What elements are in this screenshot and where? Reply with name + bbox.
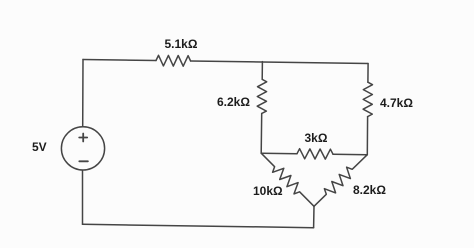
resistor R 10k diagonal <box>261 153 314 206</box>
wire <box>82 60 84 127</box>
svg-text:6.2kΩ: 6.2kΩ <box>217 95 250 109</box>
svg-text:5V: 5V <box>32 140 47 154</box>
wire <box>366 117 368 155</box>
svg-text:8.2kΩ: 8.2kΩ <box>353 183 386 197</box>
wire <box>313 206 315 227</box>
resistor R 3k zigzag <box>297 149 333 159</box>
wire <box>82 170 84 224</box>
svg-text:4.7kΩ: 4.7kΩ <box>380 96 413 110</box>
resistor R 5.1k zigzag <box>156 55 191 66</box>
wire <box>83 60 156 61</box>
wire <box>83 224 314 227</box>
svg-text:10kΩ: 10kΩ <box>253 184 283 198</box>
plus sign <box>79 134 87 142</box>
wire <box>261 152 297 155</box>
resistor R 6.2k zigzag <box>257 79 267 113</box>
wire <box>261 62 263 80</box>
wire <box>367 64 369 83</box>
svg-text:3kΩ: 3kΩ <box>305 131 328 145</box>
minus sign <box>79 160 88 162</box>
resistor R 8.2k diagonal <box>314 155 367 207</box>
resistor R 4.7k zigzag <box>363 82 372 116</box>
wire <box>191 61 368 64</box>
wire <box>260 114 263 154</box>
voltage source V1 circle <box>61 127 104 170</box>
svg-text:5.1kΩ: 5.1kΩ <box>165 37 198 51</box>
wire <box>333 153 367 156</box>
